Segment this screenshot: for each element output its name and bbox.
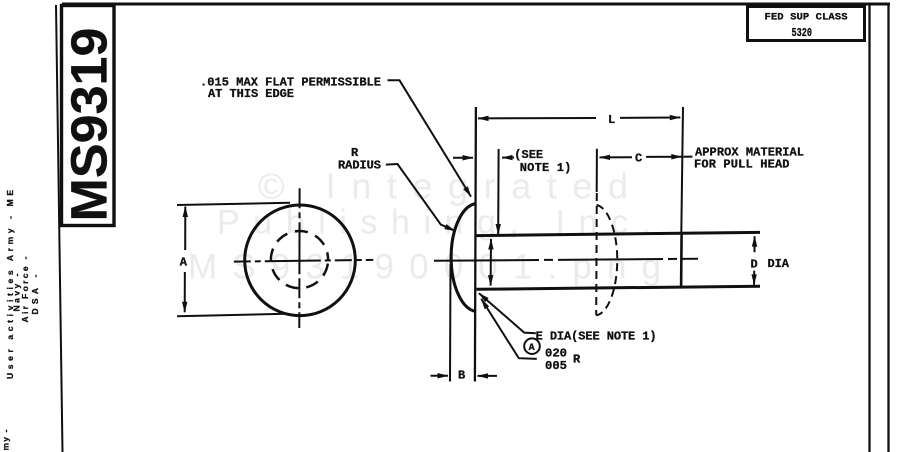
svg-text:NOTE 1): NOTE 1) bbox=[520, 161, 572, 175]
svg-text:FOR PULL HEAD: FOR PULL HEAD bbox=[694, 158, 790, 172]
svg-text:A: A bbox=[180, 255, 188, 269]
svg-text:Air Force -: Air Force - bbox=[20, 256, 30, 322]
svg-text:D: D bbox=[751, 257, 758, 271]
svg-text:DSA -: DSA - bbox=[30, 274, 40, 314]
svg-text:© Integrated: © Integrated bbox=[258, 166, 628, 207]
svg-text:E DIA(SEE NOTE 1): E DIA(SEE NOTE 1) bbox=[536, 330, 657, 344]
svg-text:RADIUS: RADIUS bbox=[338, 159, 381, 173]
svg-text:FED SUP CLASS: FED SUP CLASS bbox=[765, 11, 848, 23]
svg-text:L: L bbox=[608, 113, 615, 127]
svg-text:(SEE: (SEE bbox=[514, 148, 543, 162]
svg-text:AT THIS EDGE: AT THIS EDGE bbox=[208, 87, 294, 101]
svg-text:my -: my - bbox=[0, 429, 10, 450]
svg-text:B: B bbox=[458, 369, 465, 383]
svg-text:005: 005 bbox=[545, 359, 567, 373]
svg-text:R: R bbox=[573, 353, 581, 367]
svg-text:A: A bbox=[529, 343, 535, 354]
svg-text:MS9319: MS9319 bbox=[61, 28, 118, 222]
svg-text:MS93190001.png: MS93190001.png bbox=[188, 247, 661, 286]
svg-text:DIA: DIA bbox=[768, 257, 790, 271]
svg-text:5320: 5320 bbox=[792, 27, 813, 40]
svg-text:C: C bbox=[635, 151, 642, 165]
